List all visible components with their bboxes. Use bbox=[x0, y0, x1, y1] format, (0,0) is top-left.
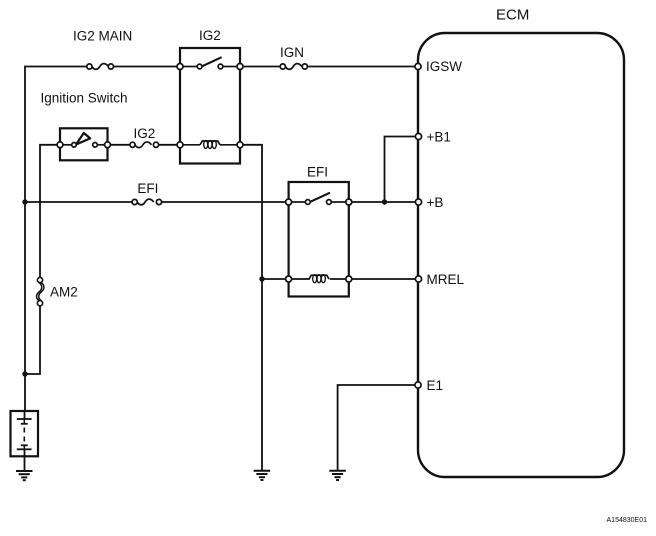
wire top row left: battery vertical to IG2 MAIN fuse bbox=[25, 67, 87, 412]
wire EFI fuse to EFI relay bbox=[162, 201, 289, 203]
svg-text:IGSW: IGSW bbox=[426, 59, 462, 74]
svg-text:IG2: IG2 bbox=[134, 126, 156, 141]
wire EFI relay to +B terminal bbox=[349, 201, 415, 203]
ECM box U1 bbox=[418, 33, 624, 477]
wire IG2 relay coil to ground drop bbox=[240, 145, 262, 470]
terminal IGSW bbox=[415, 63, 421, 69]
wire top row: IG2 relay to IGN fuse bbox=[240, 66, 280, 68]
ignition switch SW1 bbox=[60, 128, 108, 160]
ground below E1 bbox=[329, 471, 346, 480]
wire AM2 to battery junction bbox=[25, 306, 40, 374]
wire E1 to ground bbox=[338, 385, 415, 470]
ground below IG2/EFI coil drop bbox=[254, 471, 271, 480]
battery B1 bbox=[11, 411, 39, 456]
fuse EFI bbox=[132, 199, 162, 205]
relay EFI coil bbox=[291, 275, 346, 283]
svg-text:Ignition Switch: Ignition Switch bbox=[41, 91, 128, 106]
svg-text:IGN: IGN bbox=[280, 45, 304, 60]
junction dot +B1 branch bbox=[382, 199, 387, 204]
ignition switch contacts bbox=[57, 133, 110, 148]
ground below battery bbox=[16, 471, 33, 480]
terminal +B bbox=[415, 199, 421, 205]
battery plates bbox=[17, 411, 32, 471]
wire IG2 fuse to IG2 relay coil bbox=[159, 144, 180, 146]
wire ignition switch to IG2 fuse bbox=[108, 144, 130, 146]
svg-text:EFI: EFI bbox=[137, 181, 158, 196]
relay IG2 contact bbox=[183, 57, 237, 69]
wire ignition switch feed down to AM2 bbox=[40, 145, 60, 278]
junction dot EFI coil/ground drop bbox=[259, 276, 264, 281]
junction dot AM2/battery bbox=[22, 371, 27, 376]
relay IG2 bbox=[180, 48, 240, 164]
junction dot EFI feed bbox=[22, 199, 27, 204]
svg-text:MREL: MREL bbox=[427, 272, 465, 287]
wire junction to EFI coil bbox=[262, 278, 289, 280]
svg-text:AM2: AM2 bbox=[50, 285, 78, 300]
terminal +B1 bbox=[415, 133, 421, 139]
fuse IG2 MAIN bbox=[87, 64, 114, 70]
terminal E1 bbox=[415, 382, 421, 388]
fuse IGN bbox=[280, 64, 307, 70]
wire EFI coil row to MREL terminal bbox=[349, 278, 415, 280]
svg-text:ECM: ECM bbox=[496, 7, 529, 24]
svg-text:+B: +B bbox=[427, 195, 444, 210]
wire top row: IG2 MAIN fuse to IG2 relay bbox=[114, 66, 181, 68]
svg-text:IG2 MAIN: IG2 MAIN bbox=[73, 29, 132, 44]
relay EFI contact bbox=[291, 193, 346, 205]
svg-text:IG2: IG2 bbox=[199, 28, 221, 43]
svg-text:E1: E1 bbox=[427, 378, 444, 393]
wire EFI row: left vertical to EFI fuse bbox=[25, 201, 132, 203]
relay EFI box terminals bbox=[286, 199, 352, 282]
wire +B1 branch bbox=[385, 137, 416, 203]
fuse IG2 bbox=[130, 142, 159, 148]
fusible link AM2 bbox=[37, 277, 44, 305]
wire top row: IGN fuse to IGSW terminal bbox=[307, 66, 415, 68]
svg-text:EFI: EFI bbox=[307, 165, 328, 180]
terminal MREL bbox=[415, 276, 421, 282]
svg-text:A154830E01: A154830E01 bbox=[607, 517, 648, 524]
relay EFI bbox=[289, 182, 349, 297]
ignition switch key blade bbox=[76, 133, 90, 145]
relay IG2 coil bbox=[183, 141, 237, 149]
relay IG2 box terminals bbox=[177, 64, 243, 148]
svg-text:+B1: +B1 bbox=[427, 129, 451, 144]
